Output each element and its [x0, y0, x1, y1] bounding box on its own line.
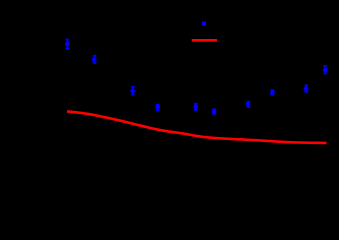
data point 4 — [155, 104, 160, 111]
fit curve (red) — [67, 111, 327, 142]
legend marker (blue square) — [202, 22, 206, 26]
data point 10 — [323, 65, 328, 74]
data point 2 — [92, 55, 97, 64]
data point 3 — [130, 86, 135, 96]
legend line (red) — [192, 39, 217, 42]
data point 1 — [65, 39, 70, 50]
data point 7 — [246, 101, 251, 108]
data point 8 — [270, 89, 275, 95]
data point 6 — [212, 108, 217, 114]
data point 5 — [193, 103, 198, 111]
data point 9 — [304, 85, 309, 93]
